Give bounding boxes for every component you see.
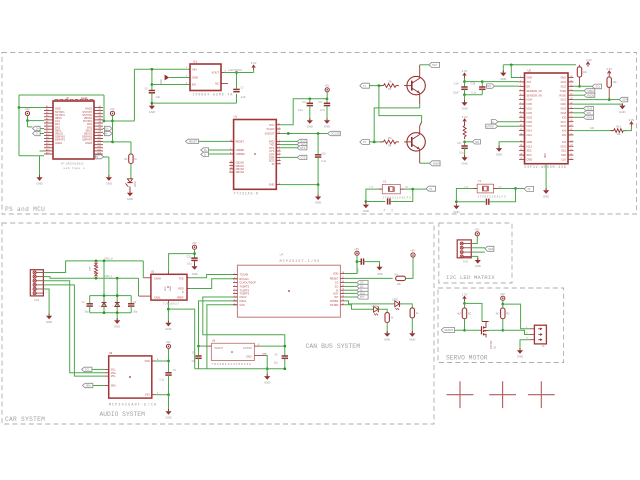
svg-text:3: 3 [520,85,521,87]
svg-text:IC1: IC1 [193,59,198,63]
svg-text:IO13: IO13 [527,145,533,148]
svg-text:A11: A11 [46,136,49,139]
svg-text:IO34: IO34 [527,99,533,102]
svg-text:CAN BUS SYSTEM: CAN BUS SYSTEM [306,343,361,350]
svg-text:18: 18 [520,154,522,156]
svg-text:SCK: SCK [333,292,339,296]
svg-text:GND0: GND0 [433,162,441,165]
svg-text:IO26: IO26 [527,121,533,124]
svg-text:IO16: IO16 [587,116,593,119]
svg-text:4.7u: 4.7u [320,108,326,112]
svg-text:3: 3 [230,153,231,155]
svg-text:TXCAN: TXCAN [239,273,248,277]
svg-text:GND: GND [453,210,459,214]
svg-text:IO2: IO2 [562,141,567,144]
svg-text:OSC1: OSC1 [239,299,247,303]
svg-text:CAN_H: CAN_H [104,257,113,261]
svg-text:0.1u: 0.1u [321,159,327,163]
svg-text:+5V: +5V [25,107,30,111]
svg-text:2: 2 [234,277,235,279]
svg-text:SD1: SD1 [561,150,566,153]
svg-text:IO0: IO0 [562,134,567,137]
svg-text:VDD: VDD [145,360,150,363]
svg-text:B9: B9 [99,131,101,133]
svg-text:B12: B12 [98,140,101,142]
svg-text:SCL: SCL [595,86,600,89]
svg-text:100: 100 [590,127,595,130]
svg-text:EN: EN [476,141,480,144]
svg-text:5: 5 [279,146,280,148]
svg-text:IO27: IO27 [527,125,533,128]
svg-text:GND: GND [106,182,112,186]
svg-text:PWR: PWR [81,97,88,101]
svg-text:3.3V: 3.3V [462,292,468,296]
svg-text:RXD0: RXD0 [587,94,594,97]
svg-text:2N7002: 2N7002 [490,340,493,349]
svg-text:GND: GND [500,77,506,81]
svg-text:0.1u: 0.1u [159,379,164,382]
svg-text:12: 12 [342,296,344,298]
svg-text:SERVO: SERVO [445,329,454,332]
svg-text:CN2: CN2 [463,261,469,264]
svg-text:SD3: SD3 [527,154,532,157]
svg-text:A14: A14 [46,145,49,148]
svg-text:12: 12 [520,125,522,127]
svg-text:2: 2 [279,140,280,142]
svg-text:EN: EN [487,85,491,88]
svg-text:CN1: CN1 [34,298,40,302]
svg-text:7: 7 [520,103,521,105]
svg-text:CS: CS [335,281,339,285]
svg-text:GND: GND [192,75,198,79]
svg-text:A15: A15 [46,148,49,151]
svg-text:IO14: IO14 [527,130,533,133]
svg-text:SO: SO [335,285,339,289]
svg-text:IO25: IO25 [527,116,533,119]
svg-text:TXD0: TXD0 [560,90,567,93]
svg-text:FT231XS-R: FT231XS-R [234,191,259,195]
svg-text:IO32: IO32 [527,108,533,111]
svg-text:C14: C14 [454,83,459,86]
svg-text:GND: GND [307,124,313,128]
svg-text:A16: A16 [46,151,49,154]
svg-text:+5V: +5V [500,292,505,296]
svg-text:SDA: SDA [488,248,493,251]
svg-text:CLK: CLK [561,159,566,162]
svg-text:GND: GND [517,354,523,358]
svg-text:SCL: SCL [85,369,90,372]
svg-text:11: 11 [342,299,344,301]
svg-text:A1: A1 [46,105,48,108]
svg-text:VCCIO: VCCIO [266,128,274,131]
svg-text:38: 38 [570,76,572,78]
svg-text:A5: A5 [46,117,48,120]
svg-text:6: 6 [520,98,521,100]
svg-text:RTS: RTS [300,147,305,150]
svg-text:GND: GND [461,107,467,111]
svg-text:A12: A12 [46,139,49,142]
svg-text:EN: EN [192,83,196,87]
svg-text:3: 3 [279,128,280,130]
svg-text:CANH: CANH [154,278,161,281]
svg-text:30p: 30p [133,310,138,313]
svg-text:4: 4 [230,149,231,151]
svg-text:17: 17 [520,149,522,151]
svg-text:A6: A6 [46,120,48,123]
svg-text:1: 1 [279,153,280,155]
svg-text:2: 2 [520,80,521,82]
svg-text:TX0RTS: TX0RTS [239,285,249,289]
svg-text:GND1: GND1 [55,142,63,145]
svg-text:13: 13 [520,129,522,131]
svg-text:GND: GND [149,110,155,114]
svg-text:R13: R13 [616,126,621,129]
svg-text:GND: GND [543,195,549,199]
svg-text:B7: B7 [99,125,101,127]
svg-text:37: 37 [570,80,572,82]
svg-text:usb type c: usb type c [64,166,86,170]
svg-text:C11: C11 [318,101,323,104]
svg-text:A10: A10 [46,133,49,136]
svg-text:28: 28 [570,120,572,122]
svg-text:TXD: TXD [179,278,184,281]
svg-text:5V0: 5V0 [432,64,437,67]
svg-text:RESET: RESET [236,141,245,144]
svg-text:10: 10 [230,167,232,169]
svg-text:RXD0: RXD0 [559,94,566,97]
svg-text:15: 15 [278,123,280,125]
svg-text:D+: D+ [204,149,208,152]
svg-text:USBDM: USBDM [236,153,245,156]
svg-text:15: 15 [342,285,344,287]
svg-text:35: 35 [570,89,572,91]
svg-text:VSS: VSS [239,303,244,307]
svg-text:NC: NC [215,82,219,86]
svg-text:A2: A2 [46,108,48,111]
svg-text:GND: GND [619,110,625,114]
svg-text:SDA: SDA [86,385,91,388]
svg-text:RXCAN: RXCAN [239,277,248,281]
svg-text:22: 22 [570,149,572,151]
svg-text:3.3V: 3.3V [462,115,468,119]
svg-text:B8: B8 [99,128,101,130]
svg-text:IO33: IO33 [527,112,533,115]
svg-text:IO19: IO19 [587,108,593,111]
svg-text:SERVO MOTOR: SERVO MOTOR [446,355,488,362]
svg-text:IO5: IO5 [562,116,567,119]
svg-text:CANL: CANL [154,296,161,299]
svg-text:GND: GND [324,124,330,128]
svg-text:D-: D- [36,133,39,136]
svg-text:IO23: IO23 [561,81,567,84]
svg-text:29: 29 [570,116,572,118]
svg-text:VIN: VIN [192,67,197,71]
svg-text:GND: GND [114,325,120,329]
svg-text:+5V: +5V [110,107,115,111]
svg-text:11: 11 [520,120,522,122]
svg-text:+5V: +5V [324,83,329,87]
svg-text:D+: D+ [36,128,40,131]
svg-text:U1: U1 [234,115,238,119]
svg-text:0.1u: 0.1u [298,108,304,112]
svg-text:CTS: CTS [300,157,305,160]
svg-text:3V3OUT: 3V3OUT [265,133,275,136]
svg-text:LED2: LED2 [135,181,137,187]
svg-text:14: 14 [342,289,344,291]
svg-text:U5: U5 [528,68,532,72]
svg-text:24: 24 [570,140,572,142]
svg-text:GND: GND [46,320,52,324]
svg-text:I2C LED MATRIX: I2C LED MATRIX [446,274,495,281]
svg-text:10k: 10k [397,282,402,286]
svg-text:17: 17 [230,164,232,166]
svg-text:21: 21 [570,154,572,156]
svg-text:16: 16 [520,145,522,147]
svg-text:4: 4 [234,285,235,287]
svg-text:D+: D+ [105,128,109,131]
svg-text:SDA: SDA [622,99,627,102]
svg-text:IO19: IO19 [561,108,567,111]
svg-text:14: 14 [520,133,522,135]
svg-text:IO5: IO5 [587,112,592,115]
svg-text:3.3V: 3.3V [606,67,612,71]
svg-text:27: 27 [570,125,572,127]
svg-text:CAN_L: CAN_L [104,274,113,278]
svg-text:RX1BF: RX1BF [330,303,339,307]
svg-text:SD0: SD0 [561,154,566,157]
svg-text:OSC2: OSC2 [239,295,247,299]
svg-text:D-: D- [204,153,207,156]
svg-text:36: 36 [570,85,572,87]
svg-text:IO35: IO35 [527,103,533,106]
svg-text:IO4: IO4 [562,130,567,133]
svg-text:+5V: +5V [166,340,171,344]
svg-text:TJA1051T: TJA1051T [163,303,179,306]
svg-text:VREF: VREF [177,296,184,299]
svg-text:C15: C15 [187,255,192,258]
svg-text:IO17: IO17 [561,121,567,124]
svg-text:+5V: +5V [410,249,415,253]
svg-text:IO22: IO22 [561,85,567,88]
svg-text:120R: 120R [89,266,91,272]
svg-text:VIN-: VIN- [111,375,116,378]
svg-text:4k7: 4k7 [496,312,501,315]
svg-text:30: 30 [570,111,572,113]
svg-text:GND: GND [560,77,566,80]
svg-text:3V3: 3V3 [527,81,532,84]
svg-text:+5V: +5V [192,241,197,245]
svg-text:A7: A7 [46,124,48,127]
svg-text:GND: GND [560,103,566,106]
svg-text:1uF: 1uF [155,95,160,99]
svg-text:A8: A8 [46,127,48,130]
svg-text:CBUS3: CBUS3 [236,171,245,174]
svg-text:PAD: PAD [544,153,547,158]
svg-text:4: 4 [279,162,280,164]
svg-text:6: 6 [279,183,280,185]
svg-text:+5V: +5V [354,247,359,251]
svg-text:32: 32 [570,103,572,105]
svg-text:IO16: IO16 [561,125,567,128]
svg-text:5: 5 [234,289,235,291]
svg-text:B14: B14 [98,146,101,148]
svg-text:B6: B6 [99,121,101,123]
svg-text:0.1u: 0.1u [471,91,476,94]
svg-text:GND: GND [165,415,171,419]
svg-text:CMD: CMD [527,159,533,162]
svg-text:GND3: GND3 [85,142,93,145]
svg-text:B15: B15 [98,149,101,151]
svg-text:+3V3 300mA: +3V3 300mA [228,69,242,72]
svg-text:30p: 30p [85,310,90,313]
svg-text:18: 18 [230,161,232,163]
svg-text:LED1: LED1 [392,298,399,301]
svg-text:14: 14 [230,140,232,142]
svg-text:GND: GND [246,356,252,359]
svg-text:GND: GND [475,264,481,268]
svg-text:CAR SYSTEM: CAR SYSTEM [5,416,45,423]
svg-text:CLKOUT/SOF: CLKOUT/SOF [239,281,256,285]
svg-text:7: 7 [279,156,280,158]
svg-text:MCP2515T-I/SO: MCP2515T-I/SO [280,259,321,264]
svg-text:GND: GND [384,337,390,341]
svg-text:3.3V: 3.3V [586,58,592,62]
svg-text:A9: A9 [46,130,48,133]
svg-text:7: 7 [234,296,235,298]
svg-text:A13: A13 [46,142,49,145]
svg-text:16: 16 [342,281,344,283]
svg-text:C17: C17 [457,142,462,145]
svg-text:GND: GND [363,209,369,213]
svg-text:C18: C18 [321,152,326,155]
svg-text:SD2: SD2 [527,150,532,153]
svg-text:INT: INT [360,296,365,299]
svg-text:GND: GND [127,197,133,201]
svg-text:VCC: VCC [165,286,167,291]
svg-text:GND: GND [527,141,533,144]
svg-text:U4: U4 [280,253,284,257]
svg-text:GND: GND [377,272,383,276]
svg-text:GND: GND [36,182,42,186]
svg-text:8: 8 [279,159,280,161]
svg-text:IO21: IO21 [561,99,567,102]
svg-text:B3: B3 [99,112,101,114]
svg-text:GND: GND [264,380,270,384]
svg-text:23: 23 [570,145,572,147]
svg-text:B1: B1 [99,106,101,108]
svg-text:IO18: IO18 [561,112,567,115]
svg-text:19: 19 [520,158,522,160]
svg-text:B10: B10 [98,134,101,136]
svg-text:0.1u: 0.1u [187,263,192,266]
svg-text:GND: GND [496,152,502,156]
svg-text:B5: B5 [99,118,101,120]
svg-text:AUDIO SYSTEM: AUDIO SYSTEM [100,411,146,418]
svg-text:9: 9 [279,150,280,152]
svg-text:IO15: IO15 [561,145,567,148]
svg-text:1uF: 1uF [241,95,246,99]
svg-text:A3: A3 [46,111,48,114]
svg-text:15: 15 [520,140,522,142]
svg-text:25: 25 [570,133,572,135]
svg-text:9: 9 [234,303,235,305]
svg-text:20: 20 [570,158,572,160]
svg-text:3.3V: 3.3V [629,118,635,122]
svg-text:18: 18 [342,272,344,274]
svg-text:RX0BF: RX0BF [330,299,339,303]
svg-text:VCC3V3: VCC3V3 [331,133,341,136]
svg-text:+5V: +5V [474,227,479,231]
svg-text:VOUT: VOUT [212,71,220,75]
svg-text:SENSOR_VP: SENSOR_VP [527,90,543,93]
svg-text:VDD: VDD [333,272,339,276]
svg-text:6: 6 [234,292,235,294]
svg-text:RESET: RESET [189,141,198,144]
svg-text:9: 9 [520,111,521,113]
svg-text:OUT/IN: OUT/IN [243,347,252,350]
svg-text:TX2RTS: TX2RTS [239,292,249,296]
svg-text:PS and MCU: PS and MCU [5,206,45,213]
svg-text:17: 17 [342,277,344,279]
svg-text:8: 8 [234,299,235,301]
svg-text:4k7: 4k7 [457,312,462,315]
svg-text:RXD: RXD [178,287,183,290]
svg-text:34: 34 [570,94,572,96]
svg-text:D-: D- [105,133,108,136]
svg-text:MTDO: MTDO [487,125,494,128]
svg-text:A4: A4 [46,114,48,117]
svg-text:B13: B13 [98,143,101,145]
svg-text:JP-UPZ2S10S12: JP-UPZ2S10S12 [61,163,85,166]
svg-text:GND: GND [165,327,171,331]
svg-text:4: 4 [520,89,521,91]
svg-text:TXD0: TXD0 [587,90,594,93]
svg-text:10: 10 [342,303,344,305]
svg-text:26: 26 [570,129,572,131]
svg-text:INT: INT [334,295,339,299]
svg-text:13: 13 [342,292,344,294]
svg-text:22uF: 22uF [453,91,459,94]
svg-text:TRX2B161ATOD4SG: TRX2B161ATOD4SG [211,363,252,366]
svg-text:EN: EN [527,85,531,88]
svg-text:IO12: IO12 [527,134,533,137]
svg-text:5: 5 [520,94,521,96]
svg-text:LED2: LED2 [372,305,379,308]
svg-text:SDA: SDA [111,385,116,388]
svg-text:GND: GND [527,77,533,80]
svg-text:13: 13 [278,132,280,134]
svg-text:B16: B16 [98,152,101,154]
svg-text:3.3V: 3.3V [251,61,257,65]
svg-text:RESET: RESET [330,277,339,281]
svg-text:17: 17 [278,143,280,145]
svg-text:B4: B4 [99,115,101,117]
svg-text:GND: GND [269,184,275,187]
svg-text:JTX9F22K9LF3: JTX9F22K9LF3 [477,196,506,199]
svg-text:1: 1 [234,273,235,275]
svg-text:IN/OUT: IN/OUT [215,347,224,350]
svg-text:GND: GND [315,201,321,205]
svg-text:9: 9 [230,171,231,173]
svg-text:GND: GND [170,286,172,291]
svg-text:JX0804-G3M6-TA: JX0804-G3M6-TA [193,92,234,96]
svg-text:RI: RI [272,163,275,166]
svg-text:SENSOR_VN: SENSOR_VN [527,94,543,97]
svg-text:GND: GND [409,337,415,341]
svg-text:GND: GND [192,272,198,276]
svg-text:0.1u: 0.1u [459,151,465,155]
svg-text:MCP3425A0T-E/CH: MCP3425A0T-E/CH [109,402,158,407]
